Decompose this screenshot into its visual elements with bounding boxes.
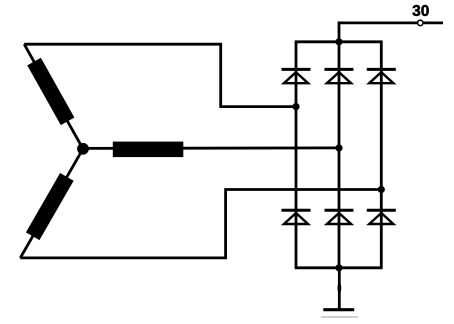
wire: phase B lead <box>83 146 339 149</box>
node: phase A / diode junction <box>292 103 299 110</box>
wire: phase A run to rectifier left leg <box>24 44 296 106</box>
node: phase B / diode junction <box>335 144 342 151</box>
ground <box>323 308 354 311</box>
wire: phase C lead from star point to bottom-left corner <box>20 149 83 258</box>
stator winding L3 (phase C) <box>26 173 74 240</box>
svg-text:30: 30 <box>412 3 429 20</box>
diode D4 (negative, phase A) <box>282 210 311 224</box>
diode D5 (negative, phase B) <box>325 210 354 224</box>
wire: output to terminal 30 <box>339 23 417 42</box>
node: positive rail junction <box>335 38 342 45</box>
wire: negative rail (bottom) <box>295 266 383 269</box>
wire: rectifier right leg <box>380 42 383 268</box>
wire: rectifier left leg <box>295 42 298 268</box>
node: phase C / diode junction <box>378 186 385 193</box>
node: star point of stator <box>77 143 89 155</box>
diode D2 (positive, phase B) <box>325 69 354 83</box>
wire: phase C run to rectifier right leg <box>20 190 381 258</box>
node: negative rail junction <box>335 264 342 271</box>
wire: phase A lead from star point to top-left corner <box>24 44 83 149</box>
wire: ground stem joint thickening <box>338 283 342 293</box>
stator winding L1 (phase A) <box>27 58 74 125</box>
wire: positive rail (top) <box>295 40 383 43</box>
stator winding L2 (phase B) <box>113 142 184 158</box>
diode D1 (positive, phase A) <box>282 69 311 83</box>
diode D3 (positive, phase C) <box>367 69 396 83</box>
ground shadow artifact <box>321 316 358 318</box>
wire: terminal 30 tail <box>424 21 443 24</box>
wire: ground stem <box>338 268 341 309</box>
diode D6 (negative, phase C) <box>367 210 396 224</box>
terminal 30 connector (open circle) <box>418 20 424 26</box>
wire: rectifier middle leg <box>338 42 341 268</box>
